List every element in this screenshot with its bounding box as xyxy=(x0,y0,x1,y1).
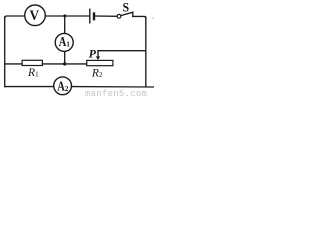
svg-text:R1: R1 xyxy=(27,67,39,79)
wire bottom-left segment xyxy=(5,86,54,88)
wire slider P to right branch xyxy=(98,50,146,52)
switch S fixed contact xyxy=(132,12,134,16)
switch S pivot circle xyxy=(117,14,121,18)
svg-text:manfen5.com: manfen5.com xyxy=(85,89,147,99)
wire R1 to R2 xyxy=(43,63,87,65)
ammeter A1 xyxy=(55,33,73,51)
rheostat slider stem xyxy=(97,51,99,57)
svg-text:S: S xyxy=(123,0,130,14)
wire middle-left segment xyxy=(5,63,22,65)
wire A1 top stub xyxy=(64,16,66,33)
switch S blade xyxy=(121,12,133,15)
rheostat slider arrowhead xyxy=(96,56,100,60)
svg-text:A1: A1 xyxy=(59,35,71,50)
wire left vertical xyxy=(4,17,6,87)
battery long plate xyxy=(89,9,91,22)
wire A1 bottom stub xyxy=(64,52,66,64)
wire voltmeter to battery xyxy=(46,15,89,17)
wire right vertical xyxy=(145,17,147,87)
node junction middle (dot) xyxy=(63,62,66,65)
svg-text:R2: R2 xyxy=(91,67,103,79)
resistor R1 box xyxy=(22,60,42,65)
wire battery to switch xyxy=(96,15,118,17)
rheostat R2 box xyxy=(87,60,113,65)
voltmeter V xyxy=(25,5,46,26)
svg-text:A2: A2 xyxy=(57,79,69,94)
svg-text:V: V xyxy=(30,8,40,24)
node junction top (dot) xyxy=(63,14,66,17)
svg-text:P: P xyxy=(89,46,97,60)
wire switch to top-right corner xyxy=(133,16,146,18)
watermark fragment right edge xyxy=(152,18,154,19)
battery short plate xyxy=(93,14,95,20)
ammeter A2 xyxy=(54,77,72,95)
wire bottom-right segment xyxy=(71,86,154,88)
wire top-left segment xyxy=(5,16,25,18)
